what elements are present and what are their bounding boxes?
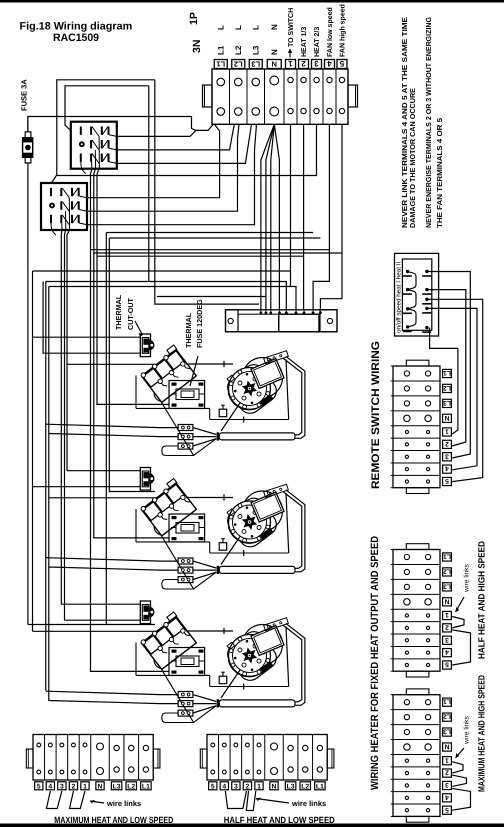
svg-text:L: L — [234, 25, 243, 30]
wire terminal2 down to strip — [303, 124, 305, 309]
TB1 phase labels 1P/3N — [216, 24, 279, 55]
terminal block remote switch — [391, 360, 440, 493]
border bar bottom — [0, 824, 504, 827]
thermal fuse TF2 120deg — [169, 514, 205, 542]
thermal fuse TF3 120deg — [169, 648, 205, 676]
cable clamp 1 — [217, 432, 220, 440]
group3 enclosure wire — [136, 642, 289, 689]
connector CN2 — [178, 558, 193, 583]
connector CN3 — [178, 692, 193, 717]
svg-text:FAN high speed: FAN high speed — [339, 4, 347, 57]
fuse F1 3A — [23, 117, 33, 164]
wire K1 out c — [97, 169, 99, 174]
svg-text:L3: L3 — [251, 45, 260, 55]
wire K1 out b — [94, 169, 96, 174]
svg-text:wire links: wire links — [464, 563, 471, 593]
svg-text:on/off speed heat I heat II: on/off speed heat I heat II — [396, 261, 403, 333]
heater element bank H1 — [137, 345, 197, 455]
wire heater1 feed1 — [33, 336, 141, 338]
svg-text:L1: L1 — [216, 45, 225, 55]
svg-text:N: N — [444, 597, 449, 604]
heater element bank H3 — [137, 612, 197, 722]
earth box E2 — [219, 539, 227, 551]
cable sleeve 1 — [219, 433, 295, 440]
wire horizontal 253 — [94, 252, 342, 254]
svg-text:2: 2 — [445, 623, 449, 630]
svg-text:L2: L2 — [234, 59, 243, 68]
svg-text:5: 5 — [445, 477, 449, 484]
svg-text:5: 5 — [37, 783, 41, 790]
wire links label B — [456, 715, 471, 758]
connector CN1 — [178, 425, 193, 450]
warning text line4 — [435, 118, 444, 228]
svg-text:3: 3 — [445, 781, 449, 788]
HALF HEAT LOW SPEED terminal labels — [209, 782, 326, 791]
warning text line1 — [400, 17, 409, 228]
contactor K2 — [41, 183, 87, 235]
caption MAXIMUM HEAT AND LOW SPEED — [54, 815, 173, 825]
svg-text:N: N — [272, 783, 277, 790]
svg-text:L2: L2 — [443, 384, 451, 391]
remote switch labels — [443, 369, 452, 486]
leader to cutout — [135, 321, 143, 337]
wire fusebox2 feed — [94, 174, 169, 538]
connector CN3 loop wire — [162, 706, 216, 723]
wire fuse down run — [27, 163, 29, 625]
label HEAT 1/3 — [300, 27, 308, 57]
svg-text:L1: L1 — [216, 59, 225, 68]
svg-text:L: L — [216, 25, 225, 30]
wire horizontal 232.5 — [106, 232, 313, 234]
svg-text:L1: L1 — [142, 783, 150, 790]
wire terminal1 to switch mesh — [290, 124, 292, 286]
terminal block half heat high speed — [391, 544, 440, 677]
wire horizontal 249.7 — [91, 249, 330, 251]
svg-text:4: 4 — [445, 793, 449, 800]
block A wire link 1-2 — [452, 616, 464, 627]
block B wire link 2-3 — [452, 775, 466, 786]
cable clamp 3 — [217, 699, 220, 707]
heater H2 bus wire — [186, 494, 233, 500]
fan motor M1 — [223, 351, 288, 420]
svg-text:2: 2 — [445, 440, 449, 447]
svg-text:3: 3 — [314, 59, 319, 68]
label THERMAL CUT-OUT b — [126, 297, 135, 330]
svg-text:L: L — [251, 25, 260, 30]
svg-text:MAXIMUM HEAT AND HIGH SPEED: MAXIMUM HEAT AND HIGH SPEED — [477, 675, 487, 792]
wire links label A — [456, 563, 471, 612]
wire vertical 45.8 — [45, 282, 47, 691]
wire heater2 feed3 — [109, 238, 155, 492]
svg-text:wire links: wire links — [106, 799, 141, 808]
svg-text:HEAT 1/3: HEAT 1/3 — [300, 27, 308, 57]
svg-text:3: 3 — [445, 636, 449, 643]
svg-text:L3: L3 — [443, 728, 451, 735]
svg-text:2: 2 — [445, 769, 449, 776]
svg-text:L2: L2 — [234, 45, 243, 55]
label 1P — [188, 12, 200, 25]
wire heater3 feed3 — [28, 624, 155, 626]
caption MAXIMUM HEAT AND HIGH SPEED — [477, 675, 487, 792]
svg-text:N: N — [272, 59, 277, 68]
svg-text:5: 5 — [445, 806, 449, 813]
motor M2 cable — [284, 490, 305, 572]
svg-text:5: 5 — [211, 783, 215, 790]
wire heater2 feed4 — [49, 497, 157, 499]
svg-text:MAXIMUM HEAT AND LOW SPEED: MAXIMUM HEAT AND LOW SPEED — [54, 815, 173, 825]
wire connector2 feed row2 — [49, 567, 178, 570]
label THERMAL CUT-OUT a — [114, 294, 123, 330]
thermal cut-out TC3 — [140, 601, 154, 624]
svg-text:NEVER ENERGISE TERMINALS 2 OR: NEVER ENERGISE TERMINALS 2 OR 3 WITHOUT … — [424, 17, 433, 228]
wire vertical 148.8 — [148, 86, 150, 282]
wire heater3 feed2 — [65, 619, 141, 621]
svg-text:1: 1 — [445, 428, 449, 435]
wire fusebox1 feed — [97, 174, 169, 404]
cable sleeve 2 — [219, 566, 295, 573]
wire fusebox3 feed — [91, 174, 170, 671]
svg-text:N: N — [444, 414, 449, 421]
wire L3 to K2 pin — [87, 124, 257, 224]
svg-text:1: 1 — [445, 611, 449, 618]
connector CN1 loop wire — [162, 439, 216, 456]
svg-text:4: 4 — [222, 783, 226, 790]
svg-text:3: 3 — [234, 783, 238, 790]
wire horizontal 256.2 — [97, 255, 304, 257]
wire remote t2 — [428, 290, 466, 446]
svg-text:1: 1 — [445, 756, 449, 763]
wire heater3 feed4 — [33, 630, 158, 632]
label 3N — [191, 40, 203, 53]
svg-text:WIRING HEATER FOR FIXED HEAT O: WIRING HEATER FOR FIXED HEAT OUTPUT AND … — [369, 536, 381, 790]
warning text line2 — [408, 88, 417, 228]
svg-text:L3: L3 — [443, 399, 451, 406]
svg-text:L3: L3 — [287, 783, 295, 790]
caption HALF HEAT AND LOW SPEED — [224, 815, 335, 825]
svg-text:RAC1509: RAC1509 — [53, 32, 99, 44]
wire remote t5 — [428, 299, 483, 481]
wire terminal5 — [320, 124, 342, 309]
svg-text:L2: L2 — [301, 783, 309, 790]
contactor K1 — [71, 122, 117, 174]
svg-text:Fig.18 Wiring diagram: Fig.18 Wiring diagram — [20, 21, 133, 33]
svg-text:FUSE 120DEG: FUSE 120DEG — [195, 299, 204, 348]
earth box E1 — [219, 405, 227, 417]
switch labels — [396, 261, 403, 333]
terminal block TB1 mains — [203, 69, 358, 124]
wire L1 to fuse — [28, 117, 213, 133]
wire L1 to K1 pin — [117, 130, 196, 136]
svg-text:2: 2 — [246, 783, 250, 790]
svg-text:4: 4 — [327, 59, 332, 68]
heater element strip — [226, 310, 338, 332]
svg-text:4: 4 — [445, 465, 449, 472]
wire heater3 feed1 — [61, 603, 140, 605]
group1 enclosure wire — [136, 375, 289, 422]
svg-text:3N: 3N — [191, 40, 203, 53]
motor M2 earth wire — [221, 537, 240, 565]
thermal cut-out TC1 — [140, 334, 154, 357]
wire L2 to K2 pin — [87, 124, 239, 211]
label FAN low speed — [326, 7, 334, 57]
wire horizontal 281.5 — [46, 282, 286, 310]
maximum heat high speed labels — [443, 698, 452, 815]
svg-text:4: 4 — [445, 648, 449, 655]
svg-text:L2: L2 — [127, 783, 135, 790]
warning text line3 — [424, 17, 433, 228]
wire K2 out c — [67, 230, 69, 471]
border bar top — [0, 0, 504, 3]
MAX HEAT LOW SPEED terminal labels — [35, 782, 152, 791]
wire connector3 feed row1 — [46, 691, 178, 694]
wire terminal3 left run — [57, 124, 317, 175]
svg-text:2: 2 — [72, 783, 76, 790]
wire heater2 feed1 — [67, 470, 140, 472]
wire L3 to K1 pin — [117, 124, 252, 163]
wire N fan to heater strip — [261, 124, 280, 309]
svg-text:REMOTE SWITCH WIRING: REMOTE SWITCH WIRING — [370, 341, 382, 489]
svg-text:N: N — [270, 49, 279, 55]
thermal cut-out TC2 — [140, 468, 154, 491]
svg-text:FAN low speed: FAN low speed — [326, 7, 334, 57]
svg-text:wire links: wire links — [291, 799, 326, 808]
wire heater1 feed3 — [67, 363, 157, 365]
svg-text:THE FAN TERMINALS 4 OR 5: THE FAN TERMINALS 4 OR 5 — [435, 118, 444, 228]
wire loop to K2 — [52, 80, 155, 183]
motor M1 earth wire — [221, 403, 240, 431]
connector CN2 loop wire — [162, 572, 216, 589]
wire connector3 feed row2 — [49, 701, 178, 704]
wire vertical 154.8 — [155, 80, 259, 304]
svg-text:N: N — [444, 743, 449, 750]
HALF HEAT LOW SPEED wire links — [225, 791, 255, 811]
svg-text:wire links: wire links — [464, 715, 471, 745]
wire vertical 32.5 — [32, 271, 34, 631]
wire loop to K1 — [65, 86, 149, 131]
wire L2 to K1 pin — [117, 124, 235, 150]
wire links label mid — [256, 798, 326, 809]
caption WIRING HEATER — [369, 536, 381, 790]
svg-text:L3: L3 — [113, 783, 121, 790]
svg-text:THERMAL: THERMAL — [184, 312, 193, 348]
label FAN high speed — [339, 4, 347, 57]
wire links label left — [90, 799, 141, 808]
block B wire link 1-2 — [452, 762, 463, 773]
label HEAT 2/3 — [313, 27, 321, 57]
svg-text:DAMAGE TO THE MOTOR CAN OCCURE: DAMAGE TO THE MOTOR CAN OCCURE — [408, 88, 417, 228]
connector CN3 fan wires — [193, 695, 216, 713]
svg-text:1: 1 — [83, 783, 87, 790]
half heat high speed labels — [443, 553, 452, 670]
wire terminal4 — [313, 124, 329, 309]
svg-text:L2: L2 — [443, 713, 451, 720]
svg-text:L1: L1 — [443, 553, 451, 560]
svg-text:HALF HEAT AND LOW SPEED: HALF HEAT AND LOW SPEED — [224, 815, 335, 825]
block A wire link 2-5 — [452, 630, 470, 665]
block B wire link 3-5 — [452, 788, 470, 810]
fan motor M3 — [223, 618, 288, 687]
wire vertical 106.3 — [105, 233, 107, 625]
svg-text:5: 5 — [339, 59, 344, 68]
heater element bank H2 — [137, 479, 197, 589]
svg-text:CUT-OUT: CUT-OUT — [126, 297, 135, 330]
svg-text:L1: L1 — [443, 698, 451, 705]
motor M3 cable — [284, 623, 305, 705]
wire remote t3 — [428, 272, 470, 459]
remote switch S1 — [395, 253, 439, 336]
svg-text:L1: L1 — [443, 369, 451, 376]
svg-text:4: 4 — [48, 783, 52, 790]
wire remote t4 — [428, 308, 477, 469]
fan motor M2 — [223, 484, 288, 553]
svg-text:L3: L3 — [443, 582, 451, 589]
wire horizontal 238 — [109, 237, 320, 239]
svg-text:5: 5 — [445, 661, 449, 668]
svg-text:THERMAL: THERMAL — [114, 294, 123, 330]
svg-text:N: N — [270, 24, 279, 30]
leader to thermal fuse — [190, 356, 198, 386]
connector CN1 fan wires — [193, 428, 216, 446]
thermal fuse TF1 120deg — [169, 381, 205, 409]
label THERMAL FUSE a — [184, 312, 193, 348]
terminal block MAX HEAT LOW SPEED — [26, 735, 160, 781]
wire vertical 48.8 — [48, 287, 50, 702]
wire connector1 feed row1 — [46, 424, 178, 427]
svg-text:1P: 1P — [188, 12, 200, 25]
svg-text:N: N — [98, 783, 103, 790]
terminal block maximum heat high speed — [391, 689, 440, 822]
title RAC1509 — [53, 32, 99, 44]
title Fig.18 Wiring diagram — [20, 21, 133, 33]
caption HALF HEAT AND HIGH SPEED — [477, 541, 487, 659]
svg-text:HALF HEAT AND HIGH SPEED: HALF HEAT AND HIGH SPEED — [477, 541, 487, 659]
motor M3 earth wire — [221, 670, 240, 698]
wire K1 out a — [91, 169, 92, 174]
cable sleeve 3 — [219, 700, 295, 707]
label THERMAL FUSE b — [195, 299, 204, 348]
label TO SWITCH — [288, 8, 295, 58]
motor M1 cable — [284, 356, 305, 438]
wire horizontal 296.5 — [157, 296, 266, 298]
connector CN2 fan wires — [193, 561, 216, 579]
svg-text:HEAT 2/3: HEAT 2/3 — [313, 27, 321, 57]
svg-text:2: 2 — [301, 59, 306, 68]
wire K2 out b — [65, 230, 66, 620]
cable clamp 2 — [217, 566, 220, 574]
svg-text:3: 3 — [445, 452, 449, 459]
wire heater1 feed2 — [43, 282, 140, 354]
svg-text:3: 3 — [60, 783, 64, 790]
label FUSE 3A — [20, 79, 29, 111]
heater H3 bus wire — [186, 628, 233, 634]
wire connector1 feed row2 — [49, 434, 178, 437]
wire L1 to K2 pin — [87, 124, 220, 197]
heater H1 bus wire — [186, 361, 233, 367]
wire horizontal 271 — [33, 270, 291, 272]
svg-text:FUSE 3A: FUSE 3A — [20, 79, 29, 111]
MAX HEAT LOW SPEED wire links — [46, 791, 85, 809]
svg-text:L1: L1 — [316, 783, 324, 790]
terminal block HALF HEAT LOW SPEED — [200, 735, 334, 781]
earth box E3 — [219, 672, 227, 684]
wire heater2 feed2 — [33, 486, 141, 488]
wire connector2 feed row1 — [46, 558, 178, 561]
svg-text:L3: L3 — [251, 59, 260, 68]
wire K2 out a — [60, 230, 63, 604]
caption REMOTE SWITCH WIRING — [370, 341, 382, 489]
wire horizontal 286.5 — [49, 287, 296, 310]
group2 enclosure wire — [136, 509, 289, 556]
wire remote t1 — [430, 328, 458, 434]
svg-text:TO SWITCH: TO SWITCH — [288, 8, 295, 47]
svg-text:1: 1 — [288, 59, 293, 68]
TB1 terminal number labels — [214, 59, 347, 68]
svg-text:1: 1 — [257, 783, 261, 790]
svg-text:L2: L2 — [443, 567, 451, 574]
